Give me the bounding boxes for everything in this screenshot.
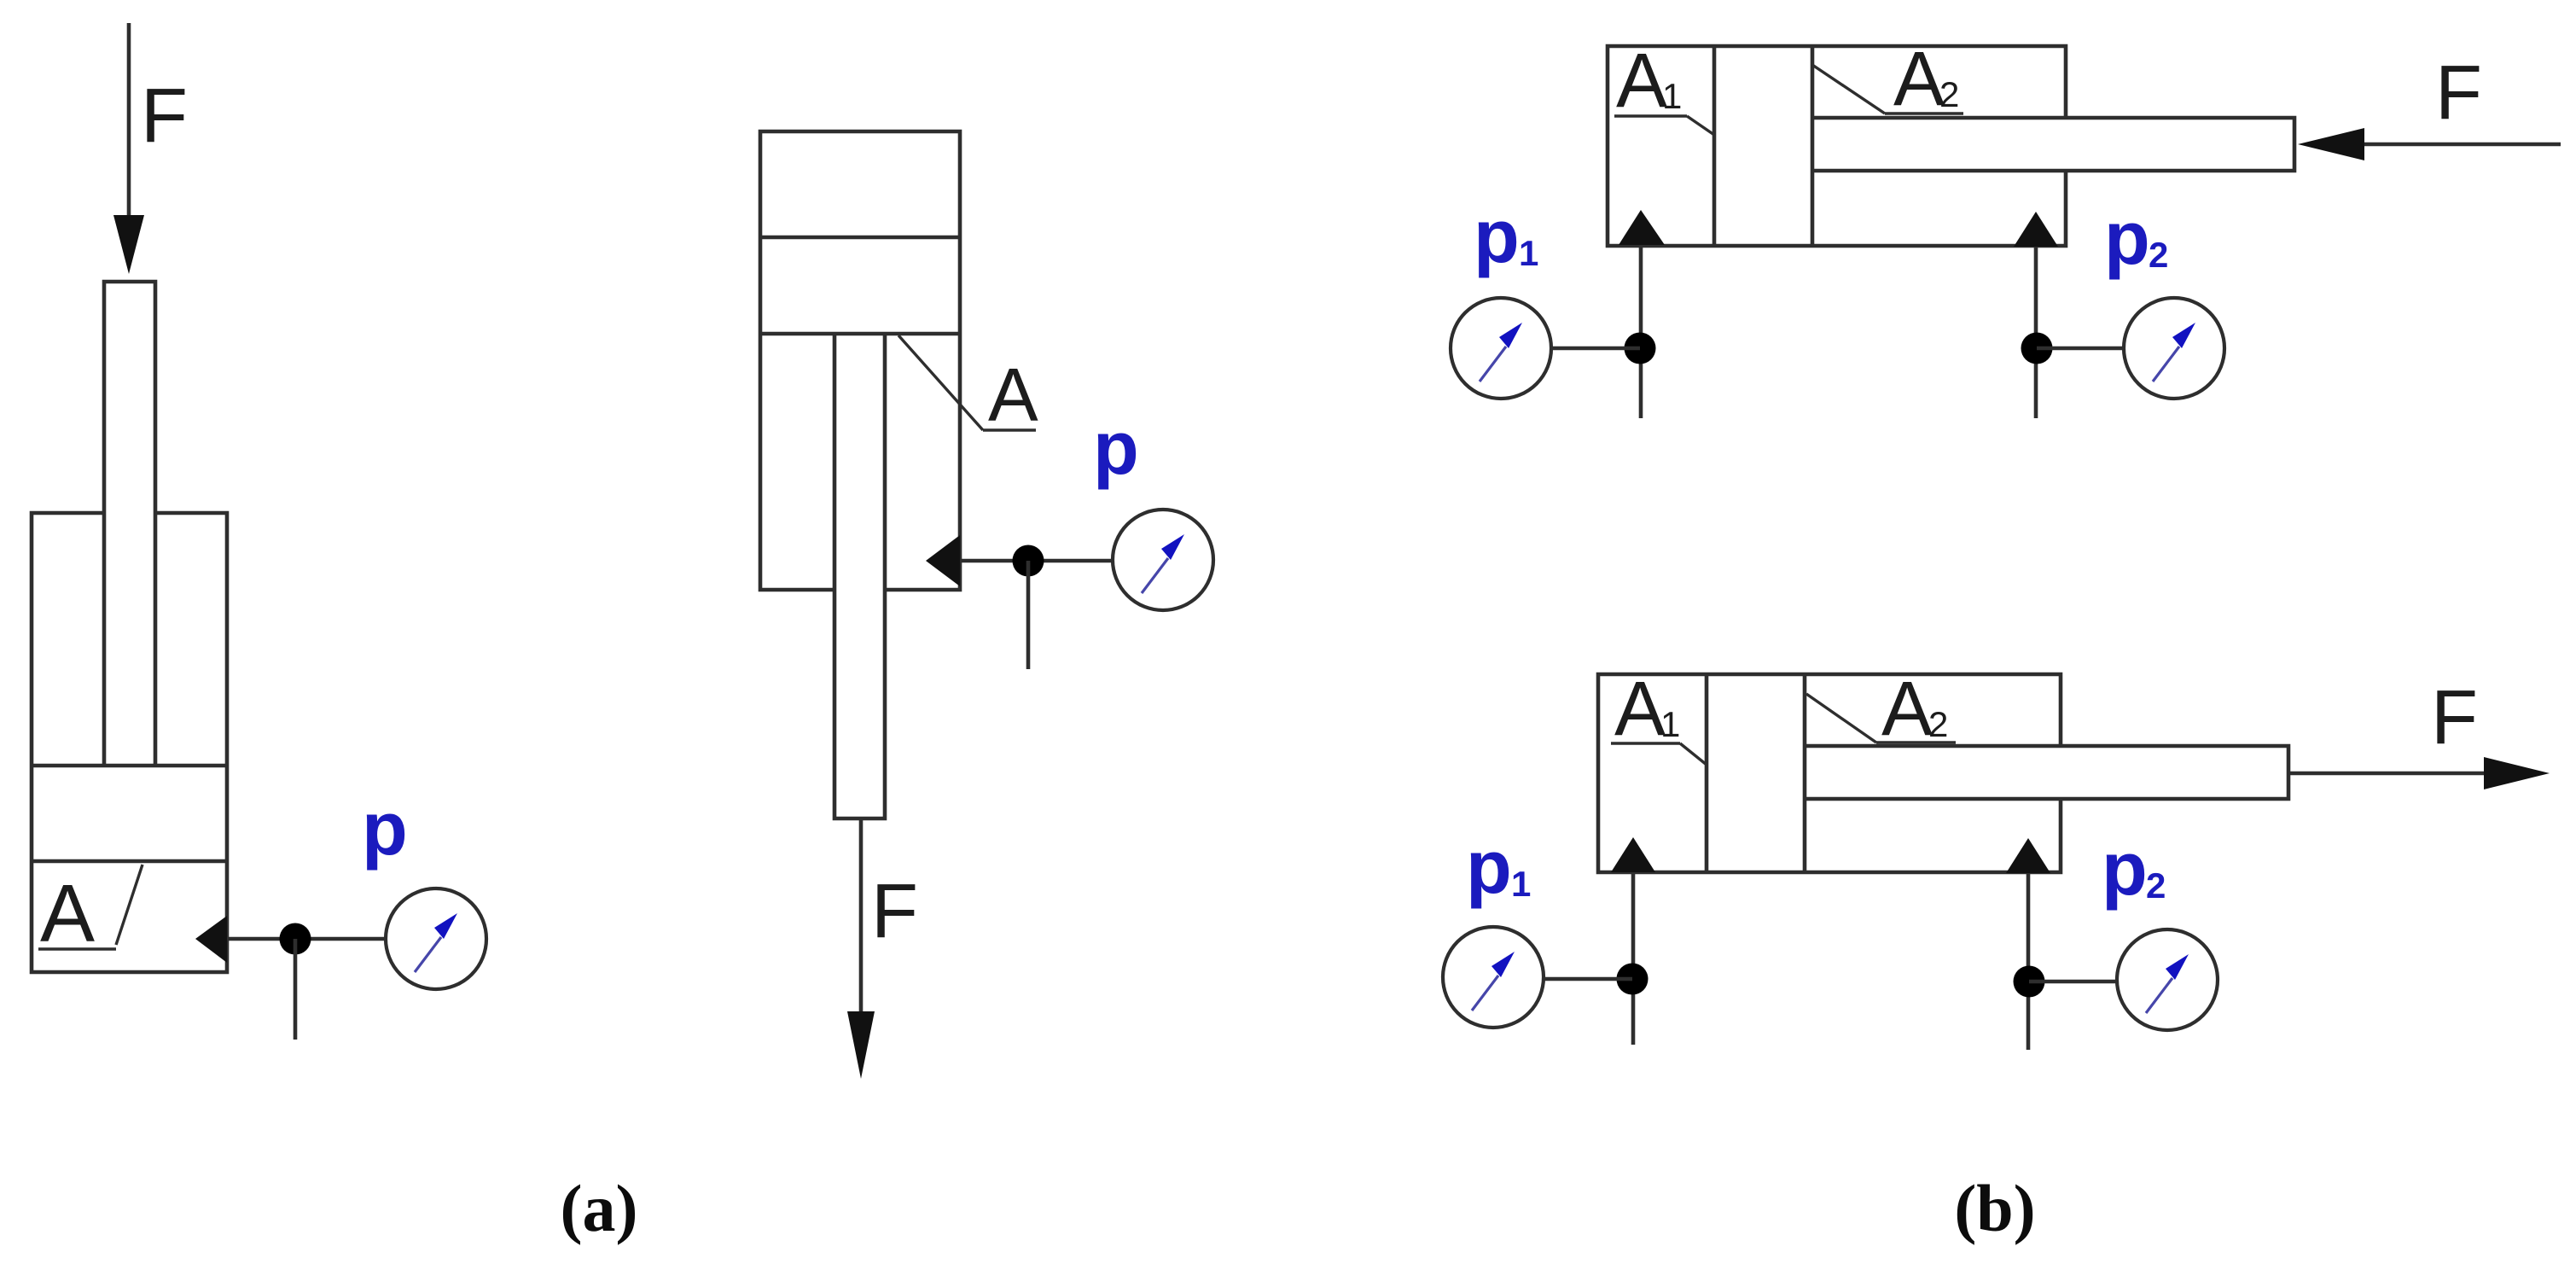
label A2 underline (diagram b top) bbox=[1885, 112, 1963, 114]
label A1 underline (diagram b top) bbox=[1614, 114, 1687, 117]
wire port to gauge (diagram a) bbox=[227, 937, 386, 941]
piston left line (diagram b bottom) bbox=[1705, 674, 1709, 872]
svg-text:p: p bbox=[2104, 195, 2150, 280]
cylinder body (diagram b bottom) bbox=[1598, 674, 2061, 872]
junction node p2 (diagram b bottom) bbox=[2014, 966, 2045, 998]
label A1 leader line (diagram b top) bbox=[1687, 116, 1714, 135]
wire stub below node (diagram middle) bbox=[1026, 561, 1031, 669]
force arrow F head (diagram b top) bbox=[2298, 128, 2364, 160]
wire p2 vertical (diagram b bottom) bbox=[2026, 873, 2031, 1050]
wire gauge p2 (diagram b bottom) bbox=[2029, 980, 2116, 984]
piston rod (diagram middle) bbox=[834, 334, 885, 818]
label A2 leader line (diagram b bottom) bbox=[1806, 694, 1876, 743]
piston lower face line (diagram a) bbox=[32, 859, 227, 864]
wire gauge p2 (diagram b top) bbox=[2037, 347, 2124, 351]
svg-text:A: A bbox=[1881, 667, 1933, 752]
svg-text:2: 2 bbox=[1939, 74, 1959, 114]
svg-text:2: 2 bbox=[2146, 865, 2166, 906]
svg-text:A: A bbox=[40, 868, 95, 959]
wire gauge p1 (diagram b top) bbox=[1552, 347, 1640, 351]
svg-text:1: 1 bbox=[1662, 76, 1682, 116]
junction node p1 (diagram b bottom) bbox=[1617, 964, 1649, 995]
svg-text:F: F bbox=[2431, 675, 2478, 760]
pressure gauge p (diagram a) bbox=[386, 888, 486, 989]
force arrow F shaft (diagram a) bbox=[127, 23, 131, 220]
pressure port arrowhead (diagram a) bbox=[195, 916, 227, 963]
svg-text:A: A bbox=[1893, 37, 1945, 122]
junction node (diagram middle) bbox=[1013, 545, 1044, 577]
pressure gauge p2 (diagram b top) bbox=[2124, 298, 2224, 399]
pressure gauge p1 (diagram b bottom) bbox=[1443, 927, 1544, 1028]
pressure port arrow p1 (diagram b bottom) bbox=[1611, 837, 1655, 872]
svg-text:A: A bbox=[1614, 667, 1666, 752]
svg-text:p: p bbox=[1466, 824, 1512, 909]
force arrow F head (diagram a) bbox=[113, 215, 144, 274]
force arrow F head (diagram b bottom) bbox=[2484, 757, 2550, 789]
svg-text:p: p bbox=[1474, 194, 1520, 278]
wire port to gauge (diagram middle) bbox=[960, 559, 1114, 563]
cylinder body (diagram middle) bbox=[760, 131, 960, 590]
svg-text:A: A bbox=[1616, 38, 1667, 124]
piston right line (diagram b top) bbox=[1811, 46, 1815, 246]
cylinder body (diagram a) bbox=[32, 513, 227, 972]
svg-text:2: 2 bbox=[1928, 704, 1948, 744]
label A leader line (diagram middle) bbox=[898, 335, 983, 430]
junction node p2 (diagram b top) bbox=[2021, 333, 2053, 364]
piston rod (diagram b bottom) bbox=[1805, 746, 2288, 799]
svg-text:p: p bbox=[362, 786, 408, 871]
svg-text:(b): (b) bbox=[1954, 1171, 2035, 1245]
label A underline (diagram a) bbox=[38, 947, 116, 950]
pressure gauge p2 (diagram b bottom) bbox=[2117, 929, 2218, 1030]
svg-text:F: F bbox=[871, 869, 918, 954]
svg-text:F: F bbox=[2435, 50, 2482, 136]
wire p1 vertical (diagram b top) bbox=[1639, 245, 1643, 418]
label A1 leader line (diagram b bottom) bbox=[1680, 743, 1707, 765]
svg-text:1: 1 bbox=[1511, 864, 1531, 904]
svg-text:A: A bbox=[988, 352, 1038, 437]
svg-text:F: F bbox=[141, 73, 188, 159]
piston face line (diagram middle) bbox=[760, 332, 960, 336]
force arrow F shaft (diagram middle) bbox=[859, 818, 864, 1016]
svg-text:1: 1 bbox=[1660, 704, 1680, 744]
svg-text:2: 2 bbox=[2149, 235, 2168, 275]
force arrow F line (diagram b top) bbox=[2364, 143, 2561, 147]
wire p1 vertical (diagram b bottom) bbox=[1631, 872, 1636, 1045]
piston rod (diagram a) bbox=[104, 282, 155, 766]
svg-text:1: 1 bbox=[1519, 233, 1538, 273]
pressure port arrow p2 (diagram b bottom) bbox=[2006, 838, 2050, 873]
svg-text:p: p bbox=[1093, 405, 1139, 490]
wire stub below node (diagram a) bbox=[294, 939, 298, 1040]
cylinder head line (diagram middle) bbox=[760, 236, 960, 240]
piston rod (diagram b top) bbox=[1812, 118, 2294, 171]
piston right line (diagram b bottom) bbox=[1803, 674, 1807, 872]
piston upper face line (diagram a) bbox=[32, 764, 227, 768]
label A2 underline (diagram b bottom) bbox=[1876, 741, 1956, 743]
label A1 underline (diagram b bottom) bbox=[1611, 742, 1680, 744]
force arrow F line (diagram b bottom) bbox=[2288, 772, 2484, 776]
label A2 leader line (diagram b top) bbox=[1812, 65, 1885, 114]
svg-text:(a): (a) bbox=[561, 1171, 638, 1245]
piston left line (diagram b top) bbox=[1712, 46, 1717, 246]
wire gauge p1 (diagram b bottom) bbox=[1544, 977, 1632, 981]
pressure port arrow p1 (diagram b top) bbox=[1619, 210, 1665, 245]
cylinder body (diagram b top) bbox=[1608, 46, 2066, 246]
junction node (diagram a) bbox=[280, 923, 311, 955]
force arrow F head (diagram middle) bbox=[847, 1011, 875, 1079]
svg-text:p: p bbox=[2102, 826, 2148, 911]
pressure port arrowhead (diagram middle) bbox=[926, 535, 960, 586]
pressure port arrow p2 (diagram b top) bbox=[2014, 212, 2058, 247]
pressure gauge p1 (diagram b top) bbox=[1451, 298, 1551, 399]
wire p2 vertical (diagram b top) bbox=[2034, 247, 2038, 418]
junction node p1 (diagram b top) bbox=[1625, 333, 1656, 364]
label A leader slash (diagram a) bbox=[116, 865, 142, 945]
label A underline (diagram middle) bbox=[983, 428, 1036, 431]
pressure gauge p (diagram middle) bbox=[1113, 510, 1213, 610]
